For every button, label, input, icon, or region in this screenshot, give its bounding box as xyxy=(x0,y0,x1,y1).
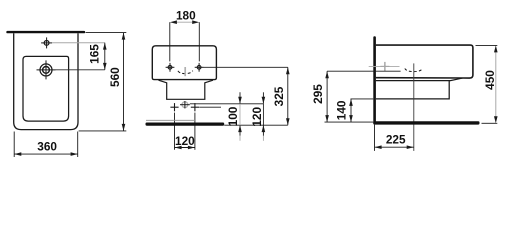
back view: thick shelf line xyxy=(146,123,225,126)
front view: faucet hole crosshair xyxy=(41,37,52,48)
side view: fixing hole cross (gray) xyxy=(380,62,389,71)
side view: thick shelf line xyxy=(373,121,479,124)
dim 140 line xyxy=(349,99,353,122)
dim 100 gray tail xyxy=(239,136,241,141)
dim 140 top extension xyxy=(351,98,374,100)
dim 225 extension line xyxy=(374,125,376,151)
fixing hole extension to 325 dim xyxy=(204,66,288,68)
dim 225 line xyxy=(375,145,414,149)
plus marks vertical extension lines down xyxy=(174,113,176,150)
back view: body outline xyxy=(152,46,216,80)
dim 360 extension lines xyxy=(13,132,15,158)
side view: basin outer profile xyxy=(376,45,473,78)
dim 360 line xyxy=(14,152,77,156)
dim 450 line xyxy=(494,45,498,123)
svg-text:120: 120 xyxy=(250,107,264,127)
back view: pedestal with chamfers xyxy=(159,80,214,99)
dim 560 top extension xyxy=(86,32,127,34)
dim 120 bottom line xyxy=(175,146,196,150)
dim 450 bottom extension xyxy=(482,122,498,124)
back view: gray center line xyxy=(184,67,186,76)
side view: overflow dashed curve xyxy=(405,68,423,71)
svg-text:450: 450 xyxy=(483,70,497,90)
back view: left plus mark xyxy=(170,103,178,111)
back view: pedestal bottom edge xyxy=(166,98,205,100)
svg-text:295: 295 xyxy=(311,84,325,104)
front view: body outline xyxy=(14,33,78,129)
back view: left fixing hole xyxy=(166,63,175,72)
svg-text:180: 180 xyxy=(176,8,196,22)
front view: bowl inner rect xyxy=(23,56,69,121)
back view: drain circle-cross xyxy=(180,101,190,108)
plus mark extension line xyxy=(199,106,221,108)
front view: top slab xyxy=(6,31,85,33)
dim 560 line xyxy=(122,33,126,131)
dim 560 bottom extension xyxy=(79,130,127,132)
shelf thin extension right xyxy=(224,124,288,126)
svg-text:100: 100 xyxy=(226,106,240,126)
overflow reference line to 295 dim xyxy=(327,70,401,72)
faint shelf top line xyxy=(146,119,195,121)
dim 325 line xyxy=(286,67,290,125)
bottom-left thin extension (295/140 reference) xyxy=(325,121,374,123)
svg-text:120: 120 xyxy=(175,134,195,148)
side view: rim lower line with chamfer xyxy=(376,78,463,81)
dim 180 line xyxy=(170,20,199,24)
dim 165 line xyxy=(103,43,107,70)
side view: siphon cover xyxy=(376,81,449,99)
dim 100 gray connector xyxy=(239,104,241,125)
dim 120 vertical line (outside arrows) xyxy=(262,92,266,136)
drain extension line to 100/120 dims xyxy=(190,103,264,105)
dim 100 line (outside arrows) xyxy=(238,92,242,136)
front view: drain double circle xyxy=(37,60,56,79)
drain extension line xyxy=(56,69,105,71)
svg-text:140: 140 xyxy=(334,100,348,120)
dim 120 gray tail xyxy=(262,136,264,141)
svg-text:165: 165 xyxy=(87,44,101,64)
faucet hole extension line (gray) xyxy=(52,42,105,44)
dim 295 line xyxy=(325,71,329,122)
side view: drain center line xyxy=(413,63,415,150)
back view: right plus mark xyxy=(191,103,199,111)
fixing hole gray extension line xyxy=(369,65,400,67)
svg-text:325: 325 xyxy=(272,86,286,106)
side view: wall line xyxy=(373,36,376,124)
back view: overflow dashed curve xyxy=(178,71,193,74)
svg-text:560: 560 xyxy=(108,67,122,87)
svg-text:360: 360 xyxy=(37,140,57,154)
back view: right fixing hole xyxy=(195,63,204,72)
dim 450 top extension xyxy=(476,44,498,46)
svg-text:225: 225 xyxy=(386,132,406,146)
dim 180 extension lines xyxy=(169,22,171,61)
